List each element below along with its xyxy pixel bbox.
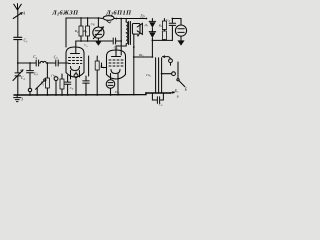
- variable capacitor C2: [13, 63, 23, 95]
- terminal circle top right: [163, 56, 173, 65]
- tube Л2 cathode: [111, 70, 120, 74]
- capacitor C1: [14, 37, 22, 39]
- tube Л2 anode: [112, 46, 125, 57]
- svg-text:Б: Б: [176, 94, 179, 98]
- resistor R1: [45, 78, 49, 95]
- tube Л2 pins: [111, 74, 119, 95]
- fuse/coil Dr: [103, 16, 114, 23]
- capacitor C5 series: [56, 60, 58, 66]
- jack Gn1: [54, 77, 58, 95]
- top rail B+: [66, 17, 99, 19]
- tube Л2 grids (dashed): [109, 60, 123, 66]
- switch Vk2 blade: [177, 62, 185, 87]
- tube Л1 cathode: [71, 67, 80, 71]
- output transformer Tr primary: [118, 19, 128, 47]
- ground earth left: [14, 95, 21, 102]
- wire: [47, 62, 55, 64]
- svg-text:Гр: Гр: [139, 13, 144, 18]
- svg-text:Cф: Cф: [166, 18, 170, 23]
- capacitor Cf: [169, 18, 175, 41]
- svg-text:Ба: Ба: [174, 89, 179, 94]
- phone jack circle under tube2: [106, 80, 115, 95]
- svg-text:C1: C1: [24, 38, 29, 44]
- wire node to R1: [46, 63, 48, 78]
- wire grid column: [120, 19, 122, 56]
- power transformer windings: [156, 58, 162, 93]
- resistor R5: [162, 19, 166, 30]
- wire grid bus into tube: [66, 62, 68, 64]
- battery B (circle with plates): [175, 25, 186, 40]
- anode wire with coupling: [76, 40, 113, 42]
- transformer core: [129, 22, 131, 45]
- diode D2: [149, 32, 155, 58]
- wire resistor bottom to diode node: [152, 39, 172, 41]
- terminal jack with wire: [161, 72, 176, 76]
- switch B1 blade: [36, 79, 46, 95]
- resistor R6: [162, 30, 166, 41]
- bottom rail: [14, 93, 170, 95]
- node junction: [47, 62, 49, 64]
- wire top rail segment 3: [114, 18, 146, 20]
- svg-text:Д1: Д1: [144, 23, 148, 28]
- battery terminal arrow Ba: [170, 92, 174, 94]
- svg-text:Л16ЖЗП: Л16ЖЗП: [51, 9, 79, 16]
- wire rail corner to battery: [172, 19, 181, 26]
- rail junction dots: [17, 94, 19, 96]
- wire tube1 cathode down: [88, 56, 90, 76]
- wire cap to tube1 grid: [58, 62, 66, 64]
- wire C1 down to node: [17, 40, 19, 63]
- diode D1: [146, 18, 156, 32]
- tube Л1 anode: [71, 41, 80, 54]
- coil L1 bumps: [39, 61, 48, 63]
- svg-text:A: A: [22, 11, 26, 16]
- trimmer capacitor C8 (circle with plates and arrow): [93, 18, 104, 41]
- node dots top rail: [80, 17, 82, 19]
- resistor R4 grid leak: [95, 56, 99, 95]
- wire screen drop: [65, 18, 67, 47]
- tube Л2 grid entry wire: [102, 63, 107, 68]
- capacitor C4 series: [36, 60, 38, 66]
- ground under trimmer: [95, 41, 102, 46]
- wire antenna to C1: [17, 10, 19, 37]
- wire top rail segment 2: [99, 17, 103, 20]
- speaker Gr: [132, 23, 142, 94]
- tube Л1 envelope: [66, 47, 84, 77]
- tube Л2 envelope: [107, 50, 126, 79]
- tube Л1 grids (dashed): [69, 58, 82, 64]
- resistor R3: [86, 18, 90, 41]
- ground under battery: [177, 40, 184, 45]
- node junction left: [17, 62, 19, 64]
- capacitor C3 branch: [27, 62, 34, 95]
- capacitor C10 bottom right: [152, 93, 163, 103]
- tube Л1 pins: [62, 71, 80, 80]
- resistor R2: [79, 18, 83, 41]
- switch Vk1 wire: [134, 56, 153, 58]
- capacitor C9 coupling: [113, 38, 115, 44]
- wire top horizontal grid bus: [18, 62, 36, 64]
- resistor R2v: [60, 76, 64, 95]
- jack Gn2: [74, 72, 78, 95]
- antenna A: [13, 4, 22, 19]
- svg-text:C2: C2: [21, 75, 26, 81]
- svg-text:З: З: [21, 98, 23, 102]
- wire coupling to grid column: [116, 40, 122, 42]
- capacitor C6: [64, 76, 70, 95]
- svg-text:Л26П1П: Л26П1П: [105, 9, 132, 16]
- capacitor C7: [83, 76, 89, 95]
